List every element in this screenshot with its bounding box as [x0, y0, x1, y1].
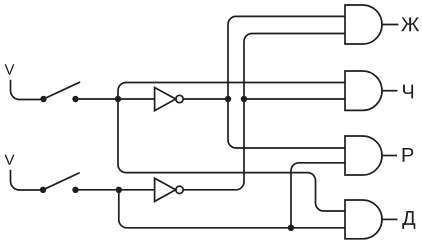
wire: B̄ up to gate Ж input 2 — [244, 34, 345, 100]
wire: top rail from switch to inverter U1 input — [76, 98, 155, 100]
switch S1 lever (open) — [44, 82, 80, 99]
wire: inverter U2 output (B̄) up to junction — [183, 99, 244, 190]
node: junction Ā — [225, 96, 231, 102]
node: junction B on bottom line — [288, 225, 294, 231]
wire: B̄ right to gate Ч input 2 — [244, 98, 345, 100]
label V (bottom switch) — [5, 155, 15, 165]
wire: A down-branch to gate Д input 1 — [118, 99, 345, 211]
node: junction B (bottom rail branch) — [116, 187, 122, 193]
wire: gate Д output — [382, 218, 398, 220]
AND gate Р body — [345, 136, 382, 175]
AND gate Д body — [345, 200, 382, 239]
wire: gate Р output — [382, 155, 397, 157]
node: junction B̄ — [241, 96, 247, 102]
inverter U1 bubble — [176, 95, 183, 102]
node: junction A (top rail branch) — [115, 96, 121, 102]
inverter U2 bubble — [176, 186, 183, 193]
node: top switch left contact — [40, 96, 46, 102]
wire: top switch lead-in (vertical + curve to rail) — [11, 80, 41, 100]
wire: gate Ж output — [382, 24, 399, 26]
wire: bottom switch lead-in — [11, 170, 41, 190]
wire: A direct to gate Ч input 1 — [118, 83, 345, 100]
label Р — [403, 148, 414, 162]
inverter U1 triangle — [155, 88, 176, 111]
wire: bottom rail from switch to inverter U2 input — [76, 189, 155, 191]
wire: Ā up to gate Ж input 1 — [228, 16, 345, 99]
label V (top switch) — [5, 64, 15, 74]
wire: Ā down to gate Р input 1 — [228, 99, 345, 148]
node: bottom switch left contact — [40, 187, 46, 193]
AND gate Ж body — [345, 5, 382, 44]
label Ж — [401, 17, 419, 31]
label Ч — [403, 85, 413, 99]
wire: B up to gate Р input 2 — [291, 163, 345, 228]
node: top switch right contact — [72, 96, 78, 102]
AND gate Ч body — [345, 71, 382, 110]
wire: B down-branch to gate Д input 2 — [119, 190, 345, 228]
node: bottom switch right contact — [72, 187, 78, 193]
switch S2 lever (open) — [43, 173, 79, 190]
inverter U2 triangle — [155, 178, 176, 201]
label Д — [402, 211, 415, 229]
wire: gate Ч output — [382, 90, 398, 92]
wire: inverter U1 output (Ā) — [183, 98, 228, 100]
